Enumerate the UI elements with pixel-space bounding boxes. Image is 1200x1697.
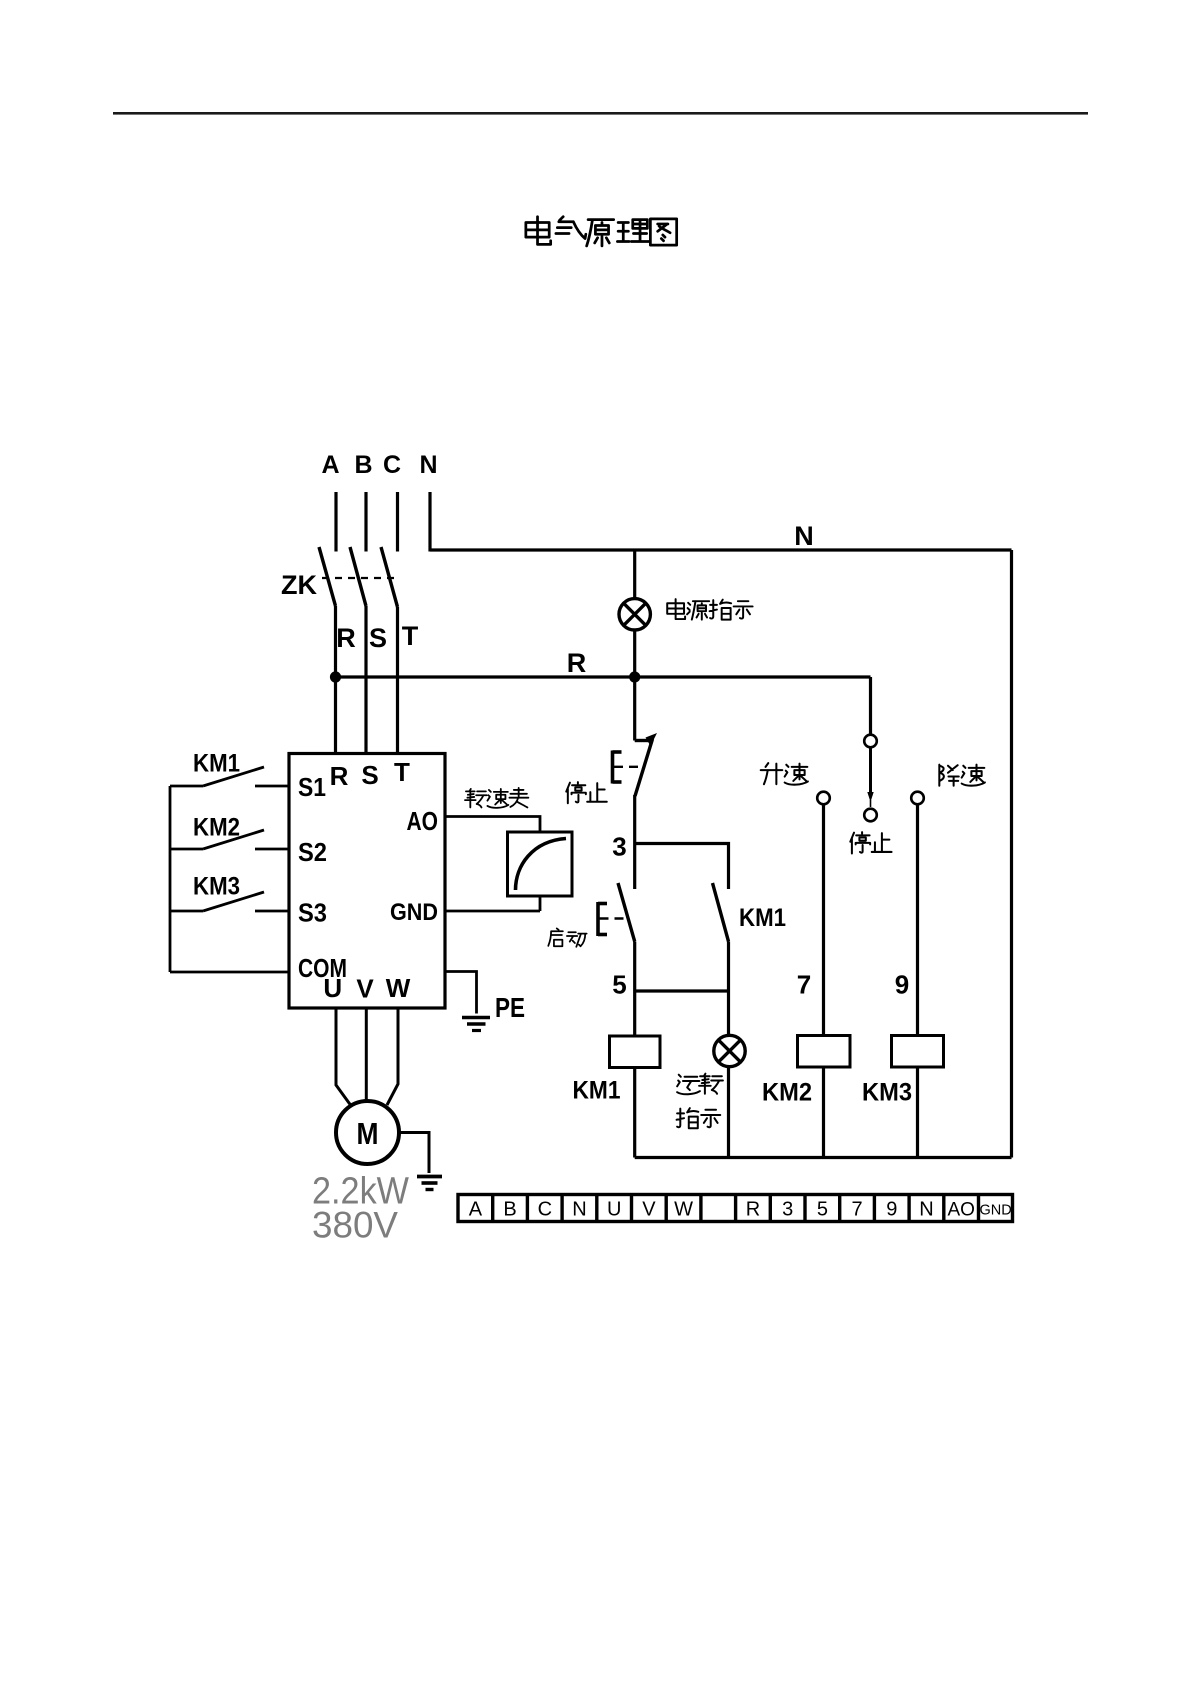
value label 2.2kW: [312, 1171, 409, 1213]
svg-text:AO: AO: [407, 806, 439, 836]
wire N horizontal bus: [430, 548, 1012, 551]
pin label S1: [298, 772, 326, 802]
lamp 运转指示 run indicator: [714, 1035, 745, 1066]
svg-text:V: V: [642, 1199, 656, 1221]
coil KM2: [798, 1036, 851, 1068]
wire GND return: [445, 910, 540, 913]
wire bottom return bus: [635, 1156, 1012, 1159]
pin label V: [356, 974, 374, 1004]
svg-text:AO: AO: [947, 1200, 974, 1221]
button 升速 terminal circle: [817, 792, 830, 805]
label 转速表: [465, 788, 528, 808]
svg-text:7: 7: [797, 970, 811, 1000]
net T label below breaker: [402, 621, 419, 651]
svg-text:S3: S3: [298, 898, 327, 928]
svg-text:R: R: [336, 623, 356, 653]
svg-text:R: R: [567, 648, 587, 678]
pin label R: [330, 761, 349, 791]
svg-text:KM1: KM1: [193, 750, 240, 778]
label KM3 coil: [862, 1079, 912, 1107]
contact KM3 label: [193, 873, 240, 901]
svg-text:7: 7: [852, 1199, 863, 1221]
label 停止 selector: [850, 832, 891, 853]
node N label: [419, 451, 437, 479]
wire 升速 to node 7: [822, 805, 825, 1036]
svg-text:GND: GND: [390, 899, 438, 926]
net S label below breaker: [369, 623, 387, 653]
meter 转速表 box: [508, 832, 573, 896]
contact KM2 to S2: [170, 830, 289, 849]
wire KM2 coil to bottom bus: [822, 1067, 825, 1158]
wire R horizontal bus: [336, 675, 871, 678]
svg-text:KM3: KM3: [862, 1079, 912, 1107]
terminal strip outline: [458, 1195, 1013, 1222]
pin label U: [323, 973, 342, 1003]
svg-text:M: M: [357, 1116, 379, 1151]
wire N right drop: [1010, 550, 1013, 1158]
title 电气原理图: [526, 217, 677, 246]
wire phase N drop: [428, 492, 431, 552]
svg-text:U: U: [323, 973, 342, 1003]
wire KM1 coil to bottom bus: [633, 1068, 636, 1158]
button 降速 terminal circle: [911, 792, 924, 805]
label KM1 aux: [739, 904, 786, 932]
coil KM1: [610, 1036, 661, 1068]
svg-text:U: U: [607, 1199, 621, 1221]
wire W to motor: [387, 1008, 398, 1105]
wire node 3 branch: [635, 844, 729, 890]
node A label: [321, 451, 339, 479]
wire motor to ground: [400, 1133, 430, 1174]
label 启动: [548, 928, 586, 946]
coil KM3: [892, 1036, 944, 1068]
svg-text:A: A: [469, 1199, 483, 1221]
svg-text:ZK: ZK: [281, 570, 317, 600]
breaker ZK linkage dashed line: [322, 577, 400, 579]
net N label on bus: [794, 521, 814, 551]
wire left common vertical: [169, 786, 172, 972]
svg-text:R: R: [746, 1199, 760, 1221]
wire V to motor: [365, 1008, 368, 1101]
wire phase C drop: [396, 492, 399, 552]
svg-text:N: N: [419, 451, 437, 479]
selector bottom terminal circle: [864, 809, 877, 822]
svg-text:5: 5: [612, 970, 626, 1000]
svg-text:B: B: [503, 1199, 516, 1221]
svg-text:N: N: [794, 521, 814, 551]
label PE: [495, 992, 525, 1023]
wire AO output: [445, 817, 540, 912]
wire lamp feed from N bus: [633, 550, 636, 599]
label 升速: [761, 763, 808, 785]
svg-text:KM2: KM2: [762, 1079, 812, 1107]
node 3 label: [612, 832, 626, 862]
junction R bus lamp: [629, 671, 640, 682]
label 运转: [677, 1074, 723, 1095]
label 指示: [677, 1108, 721, 1128]
breaker ZK blade pole B: [350, 547, 366, 606]
junction R bus left: [330, 671, 341, 682]
wire KM3 coil to bottom bus: [916, 1067, 919, 1158]
svg-text:S: S: [361, 760, 378, 790]
node C label: [383, 451, 401, 479]
svg-text:KM1: KM1: [739, 904, 786, 932]
selector top terminal circle: [864, 735, 877, 748]
wire start to node 5: [633, 942, 636, 992]
svg-text:PE: PE: [495, 992, 525, 1023]
breaker ZK label: [281, 570, 317, 600]
ground PE symbol: [462, 1018, 490, 1031]
svg-text:T: T: [402, 621, 419, 651]
wire run lamp to bottom bus: [727, 1067, 730, 1158]
contact KM1 to S1: [170, 767, 289, 786]
wire 降速 to node 9: [916, 805, 919, 1036]
net R label below breaker: [336, 623, 356, 653]
svg-text:KM1: KM1: [573, 1077, 621, 1105]
pin label COM: [298, 953, 347, 983]
pin label W: [386, 973, 411, 1003]
node 7 label: [797, 970, 811, 1000]
node 5 label: [612, 970, 626, 1000]
svg-text:KM2: KM2: [193, 814, 240, 842]
svg-text:N: N: [572, 1199, 586, 1221]
label KM2 coil: [762, 1079, 812, 1107]
wire node 5 cross: [635, 989, 729, 992]
wire KM1 aux to node 5: [727, 942, 730, 992]
svg-text:N: N: [919, 1199, 933, 1221]
contact KM3 to S3: [170, 892, 289, 911]
svg-text:C: C: [538, 1199, 552, 1221]
ground motor symbol: [417, 1177, 442, 1190]
svg-text:380V: 380V: [312, 1205, 398, 1246]
label KM1 coil: [573, 1077, 621, 1105]
contact KM2 label: [193, 814, 240, 842]
breaker ZK blade pole A: [319, 547, 336, 606]
svg-text:5: 5: [817, 1199, 828, 1221]
wire U to motor: [336, 1008, 351, 1105]
svg-text:9: 9: [886, 1199, 897, 1221]
top horizontal rule: [113, 112, 1088, 115]
pin label S2: [298, 837, 327, 867]
contact KM1 auxiliary: [713, 883, 729, 942]
svg-text:GND: GND: [979, 1203, 1011, 1219]
terminal labels: [469, 1199, 1012, 1221]
svg-text:3: 3: [782, 1199, 793, 1221]
motor M circle: [336, 1101, 399, 1164]
wire R bus corner to selector: [869, 677, 872, 735]
value label 380V: [312, 1205, 398, 1246]
svg-text:KM3: KM3: [193, 873, 240, 901]
svg-text:B: B: [354, 451, 372, 479]
pin label S3: [298, 898, 327, 928]
pushbutton 启动 NO contact: [598, 883, 635, 942]
svg-text:9: 9: [895, 970, 909, 1000]
pin label T: [394, 757, 410, 787]
label 停止 left: [566, 782, 607, 803]
node B label: [354, 451, 372, 479]
wire node 3 down: [633, 844, 636, 890]
svg-text:W: W: [674, 1199, 693, 1221]
wire T drop from breaker: [396, 607, 399, 754]
wire R bus to stop button: [633, 677, 636, 741]
label 电源指示: [667, 599, 752, 620]
wire stop to node 3: [633, 795, 636, 844]
wire S drop from breaker: [364, 606, 367, 754]
svg-text:A: A: [321, 451, 339, 479]
svg-text:T: T: [394, 757, 410, 787]
lamp 电源指示 power indicator: [619, 599, 650, 630]
selector actuating arrow: [867, 748, 873, 808]
wire node 5 to KM1 coil: [633, 991, 636, 1036]
breaker ZK blade pole C: [381, 547, 398, 607]
node 9 label: [895, 970, 909, 1000]
svg-text:C: C: [383, 451, 401, 479]
svg-text:R: R: [330, 761, 349, 791]
svg-text:W: W: [386, 973, 411, 1003]
wire COM return: [170, 971, 289, 974]
wire PE from COM terminal: [445, 972, 477, 1014]
contact KM1 label: [193, 750, 240, 778]
svg-text:S2: S2: [298, 837, 327, 867]
svg-text:S: S: [369, 623, 387, 653]
terminal strip dividers: [493, 1195, 979, 1222]
svg-text:3: 3: [612, 832, 626, 862]
pushbutton 停止 NC contact: [613, 733, 658, 796]
pin label AO: [407, 806, 439, 836]
wire node5 to run lamp: [727, 991, 730, 1036]
wire phase A drop: [334, 492, 337, 552]
label 降速: [939, 765, 985, 786]
wire phase B drop: [364, 492, 367, 552]
inverter U1 box: [289, 754, 445, 1009]
wire R drop from breaker: [334, 606, 337, 754]
svg-text:V: V: [356, 974, 374, 1004]
pin label GND: [390, 899, 438, 926]
pin label S: [361, 760, 378, 790]
wire lamp to R bus: [633, 630, 636, 677]
net R label on bus: [567, 648, 587, 678]
svg-text:S1: S1: [298, 772, 326, 802]
